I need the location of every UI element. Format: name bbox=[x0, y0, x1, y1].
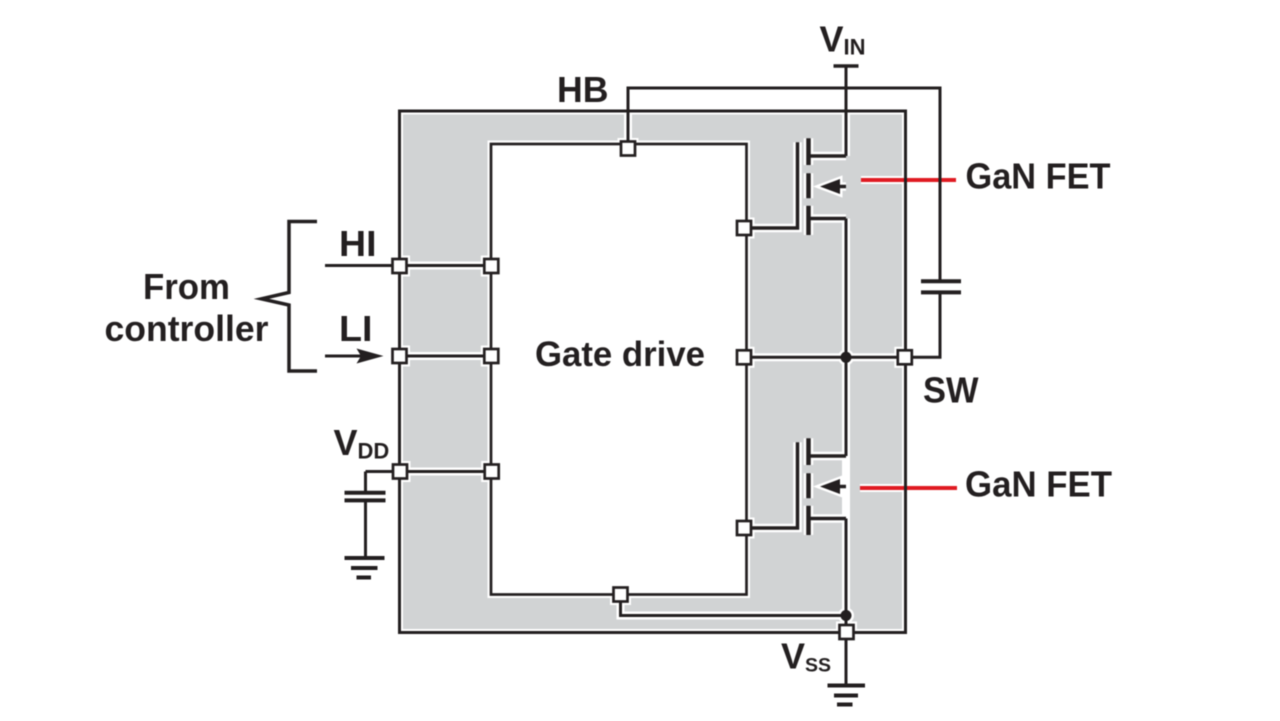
Q2 drain tap bbox=[809, 454, 847, 458]
capacitor C1 (VDD bypass) bbox=[345, 493, 386, 501]
wire HB net (pin up, over, down to bootstrap cap) bbox=[628, 88, 940, 281]
wire LI lead bbox=[325, 355, 363, 358]
svg-text:VIN: VIN bbox=[820, 19, 866, 60]
callout line to Q2 (red) bbox=[860, 486, 957, 490]
Q1 drain tap bbox=[809, 154, 847, 158]
pin HI (outer) bbox=[393, 259, 407, 273]
wire VDD to bypass cap bbox=[364, 472, 367, 494]
white wire casings (underlay, clipped to gray ring) bbox=[325, 66, 957, 639]
arrowhead LI input bbox=[357, 349, 384, 364]
svg-text:LI: LI bbox=[339, 308, 373, 349]
svg-text:Gate drive: Gate drive bbox=[535, 335, 705, 374]
pin Q1 gate bbox=[737, 221, 751, 235]
wire Q2 drain to SW node bbox=[845, 357, 848, 456]
pin HI (inner) bbox=[484, 259, 498, 273]
wire Q1 source to SW node bbox=[845, 219, 848, 358]
callout line to Q1 (red) bbox=[861, 178, 956, 182]
svg-text:controller: controller bbox=[105, 308, 269, 349]
node SW junction bbox=[841, 352, 852, 363]
svg-text:HB: HB bbox=[557, 69, 609, 110]
svg-text:VDD: VDD bbox=[334, 422, 390, 464]
IC body border bbox=[400, 111, 906, 633]
pin gate-drive bottom bbox=[614, 588, 628, 602]
svg-text:GaN FET: GaN FET bbox=[965, 464, 1112, 505]
gate drive block border bbox=[491, 144, 747, 595]
gate drive inner block (white fill) bbox=[491, 144, 747, 595]
svg-text:GaN FET: GaN FET bbox=[966, 156, 1111, 197]
wire Q2 source to VSS bbox=[845, 519, 848, 633]
pin SW (outer) bbox=[898, 350, 912, 364]
pin Q2 gate bbox=[737, 521, 751, 535]
Q2 channel segments bbox=[806, 438, 811, 535]
wire C1 to ground bbox=[364, 500, 367, 558]
ground (VDD bypass) bbox=[345, 558, 385, 578]
wire SW net (inner pin through junction to C2) bbox=[744, 292, 940, 357]
transistor Q2 (low-side GaN FET) bbox=[744, 438, 846, 535]
pin VDD (inner) bbox=[485, 465, 499, 479]
IC body U1 (gate driver package, gray fill) bbox=[400, 111, 906, 633]
wire HI lead and internal bbox=[325, 264, 491, 267]
wire LI internal bbox=[400, 355, 492, 358]
node VSS junction bbox=[841, 610, 852, 621]
pin LI (inner) bbox=[484, 349, 498, 363]
wire Q1 gate bbox=[744, 142, 798, 228]
wire VIN stem to Q1 drain bbox=[845, 66, 848, 156]
pin VDD (outer) bbox=[393, 465, 407, 479]
pin LI (outer) bbox=[393, 349, 407, 363]
svg-text:HI: HI bbox=[339, 223, 377, 264]
wire VDD lead and internal bbox=[366, 470, 492, 473]
capacitor C2 (bootstrap) bbox=[921, 281, 961, 292]
Q1 source tap bbox=[809, 217, 847, 221]
wire gate-drive bottom to VSS bbox=[621, 595, 847, 616]
Q2 source tap bbox=[809, 517, 847, 521]
Q2 body connection and arrow bbox=[840, 485, 846, 489]
pin VSS bbox=[840, 625, 854, 639]
wire Q2 gate bbox=[744, 442, 798, 528]
pin SW (inner) bbox=[737, 350, 751, 364]
svg-text:SW: SW bbox=[923, 370, 979, 411]
ground (VSS) bbox=[828, 686, 866, 705]
pin HB bbox=[621, 142, 635, 156]
svg-text:From: From bbox=[143, 266, 230, 307]
Q1 body connection and arrow bbox=[840, 185, 846, 189]
Q1 channel segments bbox=[806, 138, 811, 235]
wire VSS pin to ground bbox=[845, 632, 848, 685]
brace (from controller group) bbox=[262, 222, 318, 372]
power rail VIN bar bbox=[834, 64, 859, 68]
svg-text:VSS: VSS bbox=[781, 636, 831, 677]
transistor Q1 (high-side GaN FET) bbox=[744, 138, 846, 235]
